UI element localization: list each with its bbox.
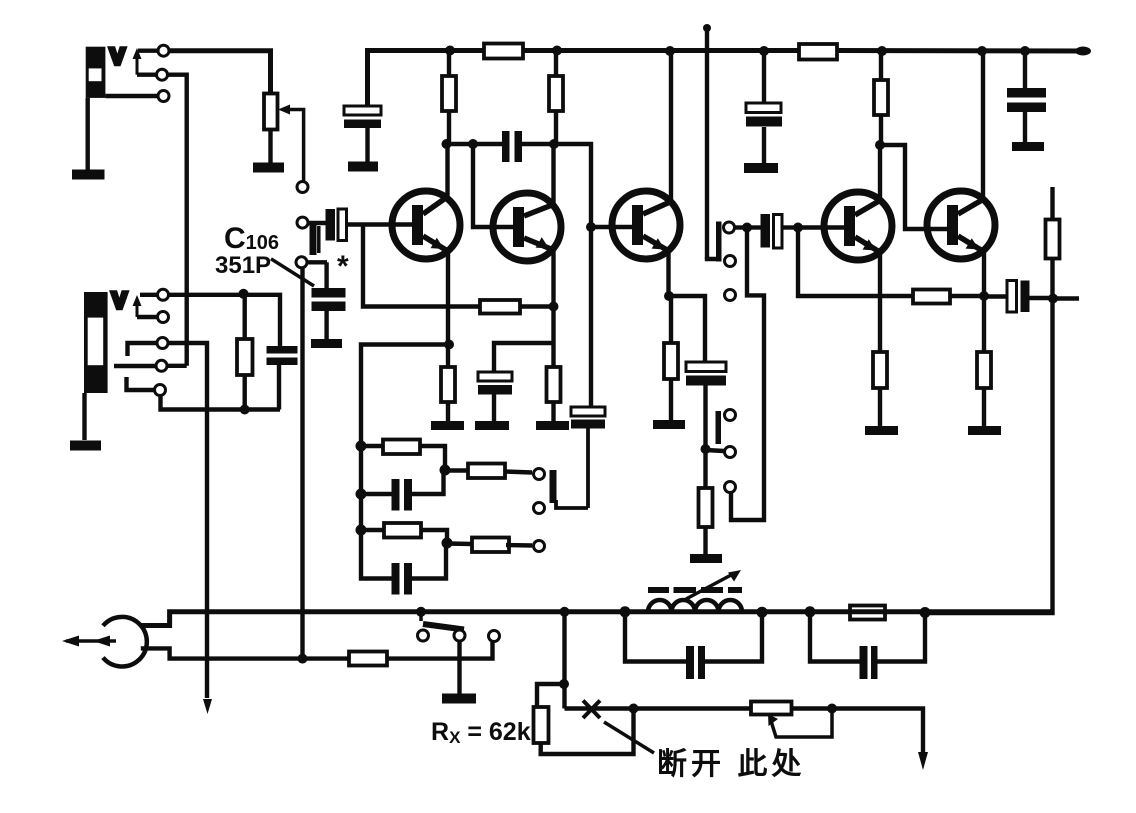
node: lower line junction with select bus	[298, 654, 308, 664]
wire: input select line down to bottom bus	[300, 268, 304, 655]
wire: Q4 base lead	[798, 225, 844, 229]
wire: contact1 to junction	[735, 225, 748, 229]
switch blade: mid lower bank	[716, 411, 722, 444]
ground for C(368)	[348, 162, 378, 172]
switch blade: record switch	[421, 612, 464, 630]
resistor R output bias x1052	[1046, 220, 1060, 259]
wire: erase head lower lead fork	[141, 648, 349, 658]
capacitor C electrolytic decoupling (Q3 base)	[571, 407, 605, 508]
transistor Q1	[392, 191, 460, 259]
switch contact: mid upper 2	[725, 256, 736, 267]
ground for C(764)	[744, 163, 778, 173]
switch blade: mid upper bank	[716, 222, 722, 262]
wire: cap to Q2 collector node	[522, 142, 554, 146]
capacitor C output coupling (electrolytic)	[1007, 281, 1030, 313]
wire: lower head line to switch contact 3	[387, 642, 493, 659]
node: RC network left junction	[805, 606, 816, 617]
switch contact: eq1 out	[534, 469, 545, 480]
wire: head2 terminal 2 hook	[137, 315, 158, 319]
wire: eq section 1 C leads	[361, 472, 444, 494]
wire: trimmer wiper link	[771, 709, 832, 738]
wire: head2-3 to long selector vertical with bottom arrow	[168, 343, 207, 698]
node: bottom rail junction at record switch	[416, 607, 426, 617]
wire: feedback vertical bus	[361, 440, 446, 579]
wire: Q5 emitter to output cap	[984, 294, 1007, 298]
wire: Q3 collector lead up to rail	[669, 51, 673, 203]
wire: main +V top rail	[368, 51, 1091, 108]
wire: head2 ground stem	[82, 393, 86, 440]
node: eq section 1 junction	[440, 465, 451, 476]
node: junction bottom return / R	[240, 405, 250, 415]
node: rail right end tip	[1075, 47, 1091, 56]
wire: head2 terminal 1 lead	[140, 293, 157, 297]
terminal circle: head2-3	[157, 338, 168, 349]
ground for head1	[72, 170, 105, 180]
wire: coupling cap to Q1 base	[347, 222, 414, 226]
wire: Q2 emitter R to ground	[551, 402, 555, 421]
node: feedback tap 2	[356, 489, 367, 500]
arrow: bias output arrowhead down	[918, 752, 928, 770]
resistor R emitter Q5	[977, 352, 991, 388]
node: feedback tap 3	[356, 525, 367, 536]
capacitor C106 351P	[312, 262, 346, 339]
resistor R collector Q2	[549, 76, 563, 111]
ground for record switch	[442, 694, 476, 704]
node: junction trimmer right	[827, 704, 837, 714]
leader line from 351P to C106	[271, 259, 314, 286]
wire: Q3 base node down to decoupling cap	[589, 227, 593, 407]
arrow: coil tuning arrow	[686, 570, 741, 599]
wire: pot wiper to contact circle	[287, 110, 304, 182]
resistor R2 inline on rail	[799, 44, 837, 60]
node: eq section 2 junction	[442, 538, 453, 549]
resistor R eq1b	[468, 464, 505, 479]
node: rail junction at R(881)	[877, 46, 887, 56]
terminal circle: head1-3	[158, 91, 169, 102]
resistor R (head2 load)	[237, 339, 253, 375]
capacitor C electrolytic Q2 emitter bypass	[478, 372, 512, 421]
wire: bias stub above rail at x707 with tip	[705, 28, 709, 259]
wire: Q3 emitter R stems	[669, 296, 673, 420]
switch blade: eq selector	[550, 470, 557, 503]
wire: output node up through R to stub	[1050, 187, 1054, 299]
terminal circle: head2-2	[158, 312, 169, 323]
node: Q3 emitter junction	[664, 291, 674, 301]
wire: record contact 2 to ground	[457, 641, 461, 694]
terminal circle: head2-1	[158, 289, 169, 300]
node: junction before coupling cap C4	[742, 223, 752, 233]
transistor Q3	[612, 191, 680, 259]
wire: feedback R to Q5 emitter node	[950, 294, 984, 298]
capacitor C electrolytic below rail at x1025	[1007, 51, 1046, 142]
wire: Q5 emitter lead down	[982, 250, 986, 352]
node: junction Rx branch	[559, 679, 569, 689]
node: Q2 collector junction	[549, 139, 559, 149]
svg-text:*: *	[337, 250, 349, 283]
wire: Q1 emitter lead down	[446, 250, 450, 367]
wire: R stem bottom	[242, 375, 246, 410]
wire: head2-1 line to RC block	[169, 295, 281, 346]
wire: eq section 2 R leads	[361, 530, 447, 543]
node: feedback tap 1	[356, 441, 367, 452]
wire: Q4 collector to Q5 base	[880, 145, 947, 229]
capacitor C electrolytic bias chain x706	[686, 362, 726, 488]
svg-text:RX = 62k: RX = 62k	[431, 718, 531, 747]
ground for Q4 emitter R	[865, 426, 898, 435]
wire: bias chain R to ground	[703, 527, 707, 554]
wire: input contact to coupling cap	[308, 221, 326, 225]
switch contact: record 1	[418, 630, 429, 641]
wire: head2 terminal 3 left stub	[128, 343, 157, 356]
wire: bias feed down	[562, 612, 566, 709]
wire: R stem top	[242, 294, 246, 339]
node: Q4 base junction	[793, 223, 803, 233]
resistor R on lower head line	[349, 652, 387, 666]
capacitor C (head2 block)	[267, 346, 298, 410]
wire: Q4 emitter lead down through line	[878, 251, 882, 352]
wire: input blade riser	[317, 226, 321, 253]
switch contact: eq2 mid	[534, 503, 545, 514]
capacitor C electrolytic at rail left end	[344, 106, 381, 162]
node A: Q1 collector junction	[442, 139, 452, 149]
wire: tank capacitor loop	[625, 612, 762, 662]
arrow: pot wiper arrowhead	[278, 105, 290, 115]
wire: bias chain junction to lower contact 2	[706, 450, 725, 451]
resistor Rx = 62k	[534, 707, 549, 743]
wire: Q1 emitter R to ground	[446, 402, 450, 421]
capacitor C coupling to Q4 (electrolytic)	[747, 214, 798, 248]
resistor R eq2b	[472, 538, 509, 553]
wire: Q2 collector lead	[551, 144, 555, 206]
arrow: erase head double arrow	[62, 636, 116, 647]
wire: output cap to node	[1030, 296, 1054, 300]
wire: head1 ground stem	[85, 98, 89, 170]
wire: Q1 base bias drop to y306 line	[363, 226, 480, 307]
wire: Q4 base bias drop to emitter line	[798, 228, 913, 297]
ground for Q3 emitter R	[653, 420, 685, 429]
wire: head2 terminal 4 left stub	[114, 364, 156, 368]
wire: head2-5 bottom return wire	[161, 396, 281, 410]
capacitor C eq2 (on bottom wire)	[392, 563, 413, 595]
svg-text:C106: C106	[224, 222, 279, 255]
node: rail junction at Q3 collector	[665, 46, 675, 56]
svg-text:351P: 351P	[215, 252, 271, 279]
node: tank right junction	[757, 607, 768, 618]
terminal circle: head1-1	[158, 45, 169, 56]
wire: Q4 collector lead and load R stems	[880, 51, 881, 201]
node: output junction	[1048, 294, 1058, 304]
switch contact: mid upper 3	[725, 290, 736, 301]
wire: +V rail left segment from head1 jack to volume pot	[169, 51, 271, 94]
resistor R emitter Q1	[441, 367, 455, 402]
svg-text:V: V	[112, 288, 127, 313]
node: Q2 base tap	[468, 139, 478, 149]
capacitor C input coupling (to Q1 base)	[326, 209, 347, 241]
tape head 1 (record/play head)	[86, 47, 106, 98]
node: rail junction at electrolytic C(764)	[759, 46, 769, 56]
switch contact: record 2	[454, 630, 465, 641]
resistor R inline on bottom rail	[850, 606, 885, 620]
ground for pot	[253, 163, 284, 173]
resistor R1 inline on rail	[484, 44, 523, 59]
switch contact: mid lower 1	[725, 410, 736, 421]
terminal circle: pot wiper	[297, 182, 308, 193]
wire: head2 terminal 5 left stub	[127, 377, 155, 390]
wire: eq section 1 R leads	[361, 446, 445, 470]
wire: head1 terminal 2 hook	[137, 72, 157, 76]
resistor R emitter Q4	[873, 352, 887, 388]
erase head (circle with gap)	[103, 617, 147, 667]
wire: Q2 emitter bypass branch	[494, 343, 554, 372]
wire: long vertical from head1-2 to head2-4 row	[168, 75, 187, 366]
wire: Rx branch loop	[537, 684, 634, 754]
switch contact: mid lower 2	[725, 447, 736, 458]
node: RC network right junction	[920, 607, 931, 618]
wire: output stub right	[1053, 296, 1079, 300]
wire: pot bottom to ground	[268, 130, 272, 164]
switch contact: eq2 out	[534, 541, 545, 552]
potentiometer RP1 (volume) body	[264, 94, 278, 130]
ground for Q2 bypass cap	[475, 421, 509, 430]
wire: bias stub corner to blade	[707, 257, 719, 259]
capacitor C bypass RC	[860, 646, 878, 679]
resistor R collector Q4	[874, 80, 888, 115]
wire: output node down to bottom rail	[925, 299, 1053, 614]
svg-text:断开 此处: 断开 此处	[657, 748, 805, 781]
wire: bias resistor to Q2 emitter node	[520, 304, 554, 308]
wire: Q1 emitter to feedback line corner	[361, 345, 449, 441]
arrow: selector line arrowhead down	[203, 699, 212, 714]
wire: Q1 collector load resistor stems	[447, 51, 451, 145]
node: Q2 emitter junction	[549, 302, 559, 312]
resistor R eq2a	[384, 523, 421, 538]
wire: erase head upper lead fork	[141, 612, 1053, 626]
terminal circle: head2-4	[156, 360, 167, 371]
wire: Q1 collector lead up to node A	[445, 144, 449, 198]
wire: contact to C106	[307, 260, 327, 264]
node: rail junction at Q5 collector	[977, 46, 987, 56]
wire: Q5 emitter R to ground	[982, 388, 986, 426]
tape head 2 (record/play head lower)	[84, 292, 108, 393]
X mark: disconnect here	[583, 701, 600, 719]
wire: Q5 collector lead to rail	[981, 51, 985, 200]
wire: Q3 emitter lead down	[666, 250, 670, 296]
node: junction head2 line / R	[239, 289, 249, 299]
resistor R emitter Q3	[664, 343, 678, 379]
node: bottom rail junction bias feed	[560, 607, 570, 617]
switch contact: mid upper 1	[724, 222, 735, 233]
node: Q5 emitter junction	[979, 291, 989, 301]
ground for head2	[70, 441, 101, 451]
ground for bias chain	[690, 554, 722, 563]
inductor L oscillator coil	[648, 600, 742, 612]
arrow: head2 selector arrow	[133, 295, 142, 317]
resistor R feedback (Q4 base line)	[913, 290, 950, 304]
node: Q3 base junction	[586, 222, 596, 232]
wire: Q2 collector node to Q3 base	[554, 144, 591, 227]
wire: bias lower line with X	[565, 706, 752, 710]
leader line to label	[604, 722, 654, 753]
capacitor C eq1	[392, 479, 413, 511]
wire: Q2 emitter lead down	[551, 248, 555, 367]
node: rail junction at R(556)	[552, 46, 562, 56]
ground for Q2 emitter R	[536, 421, 569, 430]
arrow: trimmer wiper arrowhead	[768, 714, 778, 726]
node: Q1 emitter junction	[444, 340, 454, 350]
capacitor C electrolytic below rail at x764	[746, 51, 782, 163]
transistor Q4	[824, 192, 892, 260]
wire: Q3 base lead	[591, 225, 632, 229]
wire: Q2 base drop	[473, 144, 513, 227]
ground for C(1025)	[1012, 142, 1044, 151]
wire: decoupling cap to switch blade	[556, 500, 588, 508]
resistor R emitter Q2	[547, 367, 561, 402]
transistor Q2	[493, 193, 561, 261]
wire: Q3 emitter to bias chain	[669, 296, 705, 362]
wire: bias line to trimmer pot	[792, 709, 924, 754]
switch contact: input select bottom (to C106)	[296, 257, 307, 268]
wire: head1 terminal 3 lead from head	[105, 94, 158, 98]
capacitor C tank	[686, 646, 705, 679]
terminal circle: head2-5	[155, 385, 166, 396]
resistor R eq1a	[383, 440, 420, 455]
capacitor C interstage (Q1-Q2 collectors)	[502, 131, 522, 162]
wire: head1 terminal 1 lead	[138, 49, 158, 53]
node: rail junction at C(1025)	[1020, 46, 1030, 56]
wire: junction down and over to lower bank contact 3	[731, 228, 764, 521]
wire: Q2 collector load resistor stems	[554, 51, 558, 145]
resistor R bias (Q1 base to Q2 emitter)	[480, 300, 520, 314]
wire: eq2 series R to contact	[447, 544, 532, 546]
node: Q4 collector junction	[875, 140, 885, 150]
node: bias chain junction x706	[701, 444, 711, 454]
potentiometer R trim (bias level) body	[751, 702, 792, 715]
switch contact: input select top (to coupling cap)	[297, 217, 308, 228]
wire: node A to coupling cap and Q2 base tap	[447, 142, 503, 146]
switch contact: mid lower 3	[725, 482, 736, 493]
ground for Q1 emitter R	[431, 421, 464, 430]
ground for C106	[311, 339, 342, 348]
switch contact: record 3	[489, 631, 500, 642]
resistor R collector Q1	[442, 76, 456, 111]
inductor core dashes	[648, 587, 742, 593]
node: rail junction at R(449)	[445, 46, 455, 56]
resistor R bias chain x706	[699, 488, 713, 527]
transistor Q5	[927, 191, 995, 259]
ground for Q5 emitter R	[968, 426, 1001, 435]
wire: Q4 emitter R to ground	[878, 388, 882, 426]
node: junction Rx return	[629, 704, 639, 714]
node: tank left junction	[620, 606, 631, 617]
switch blade: input select	[310, 224, 317, 255]
svg-text:V: V	[110, 44, 125, 69]
arrow: head1 selector arrow	[133, 48, 142, 75]
terminal circle: head1-2	[157, 69, 168, 80]
wire: eq1 series R to contact	[445, 471, 532, 473]
wire: RC capacitor loop	[810, 612, 925, 662]
